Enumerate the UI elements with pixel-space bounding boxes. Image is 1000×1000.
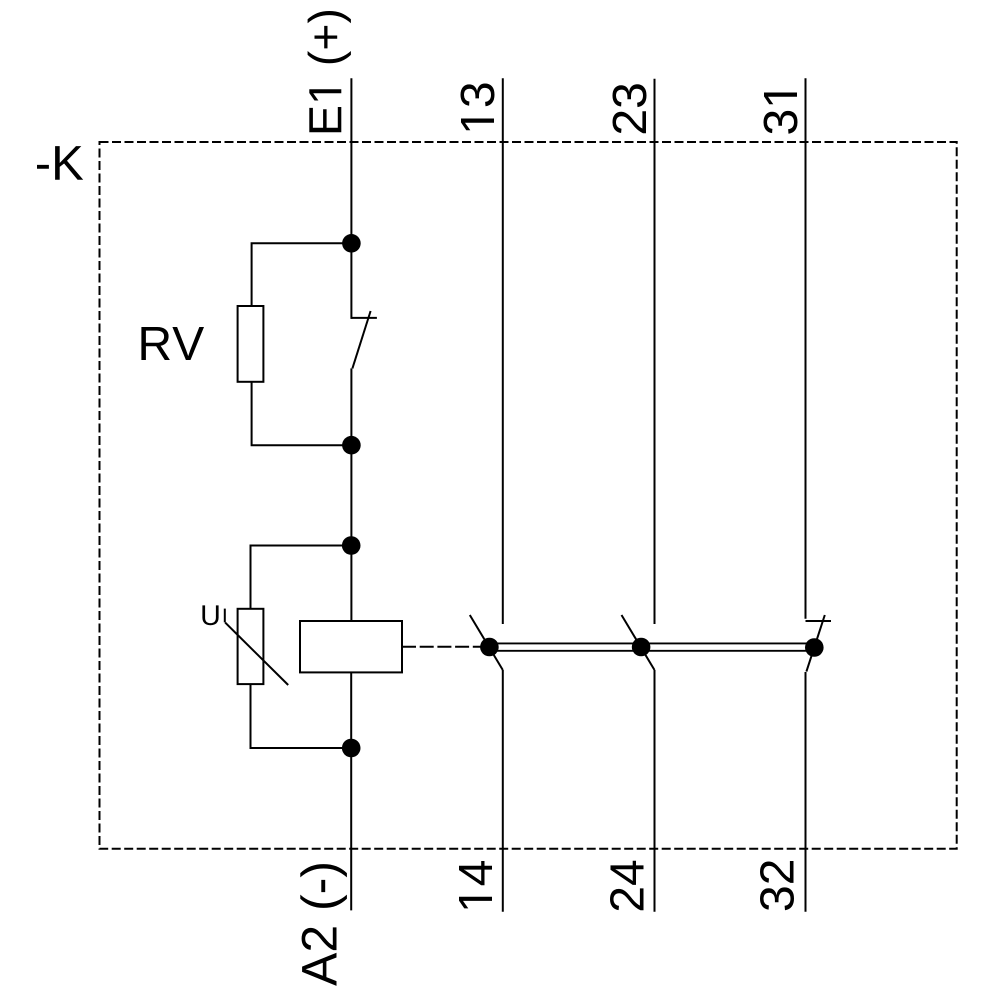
terminal label E1 (+) [308,11,351,132]
node: junction dot at RV bottom [342,436,361,455]
wire: varistor branch bottom [251,684,352,748]
contact bar of timed switching contact [351,317,377,319]
terminal label 13 [461,84,495,131]
label U [202,605,218,625]
relay coil body [300,621,402,672]
terminal label 14 [459,861,492,908]
node: contact 13-14 linkage dot [480,638,499,657]
contact 31-32 lower wire [805,672,807,912]
node: junction dot at E1 line / RV top [342,234,361,253]
terminal label 23 [613,84,647,133]
contact 31-32 blade [806,615,824,672]
label RV [141,327,204,360]
contact 13-14 lower wire [502,670,504,912]
node: contact 23-24 linkage dot [632,638,651,657]
wire: RV branch top [252,243,352,306]
terminal label 31 [764,93,798,134]
wire: varistor branch top [251,546,352,609]
node: junction dot at varistor top [342,536,361,555]
terminal label 24 [610,861,644,911]
contact 13-14 blade [470,615,503,670]
varistor diagonal stroke [225,623,288,685]
dashed enclosure box -K [100,142,957,849]
node: junction dot at varistor bottom [342,739,361,758]
mechanical linkage double bar [489,642,814,644]
contact 23-24 upper wire [654,79,656,624]
terminal label A2 (-) [300,864,347,986]
label -K [37,146,83,180]
terminal label 32 [760,861,794,910]
blade of timed switching contact [352,311,370,368]
contact 13-14 upper wire [502,78,504,624]
wire: main line middle segment [350,368,352,621]
node: contact 31-32 linkage dot [805,638,824,657]
contact 23-24 lower wire [654,670,656,912]
varistor U body [238,609,264,684]
contact 23-24 blade [622,615,655,670]
wire: RV branch bottom [252,382,352,445]
resistor RV body [238,306,264,382]
varistor tick at U label [224,609,226,623]
dashed actuation link from coil to contacts [402,646,489,648]
wire: main coil line E1-A2, upper segment [350,78,352,319]
wire: main line lower segment [350,672,352,910]
contact 31-32 NC bar [806,620,832,622]
contact 31-32 upper wire [805,78,807,619]
